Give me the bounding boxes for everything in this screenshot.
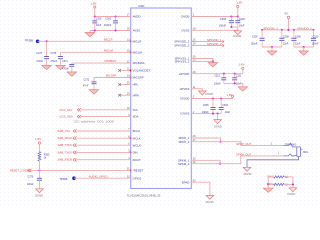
junction RESET/R305 <box>38 169 40 171</box>
svg-text:AVSS: AVSS <box>133 29 141 33</box>
wire DVDD caps bottom <box>230 26 237 28</box>
svg-text:C305: C305 <box>203 104 209 107</box>
pin 25 SPKVDD_1 <box>174 39 196 44</box>
pin 11 VOL/MICDET <box>118 68 150 73</box>
wire MICLP <box>38 37 131 41</box>
svg-text:MICLM: MICLM <box>104 48 114 52</box>
svg-text:470nF: 470nF <box>50 60 57 63</box>
svg-text:MCLK: MCLK <box>133 136 141 140</box>
wire DVSS <box>191 27 238 31</box>
pin 15 MICLM <box>127 50 143 55</box>
svg-text:SPKP_OUT: SPKP_OUT <box>236 142 251 146</box>
svg-text:C306: C306 <box>222 104 228 107</box>
svg-text:C370: C370 <box>28 176 34 179</box>
wire RESET_CODEC <box>10 169 131 173</box>
junction AVSS/C301 <box>94 29 96 31</box>
pin 5 DIN <box>128 150 137 155</box>
svg-text:DGND: DGND <box>233 34 241 38</box>
svg-text:47nF: 47nF <box>83 85 89 88</box>
pin 13 MICLP <box>127 39 142 44</box>
svg-text:10uF: 10uF <box>225 111 231 114</box>
svg-text:AVDD: AVDD <box>133 15 141 19</box>
svg-text:SPKVDD_2: SPKVDD_2 <box>297 26 312 30</box>
svg-text:I2C3_SCL: I2C3_SCL <box>60 108 73 112</box>
svg-text:100nF: 100nF <box>251 42 258 45</box>
junction SPKVSS <box>212 60 214 62</box>
svg-text:1.8V: 1.8V <box>238 63 244 67</box>
svg-text:GPIO1: GPIO1 <box>133 176 142 180</box>
svg-text:100nF: 100nF <box>27 183 34 186</box>
svg-text:SPKVSS_2: SPKVSS_2 <box>175 60 190 64</box>
wire SPKM_2 / SPKM_OUT <box>191 152 283 163</box>
svg-text:10uF: 10uF <box>239 25 245 28</box>
capacitor C375 470nF <box>50 52 63 65</box>
junction SPKP <box>219 141 221 143</box>
svg-text:10uF: 10uF <box>96 24 102 27</box>
svg-text:DGND: DGND <box>206 200 214 204</box>
note I2C address <box>74 119 115 123</box>
ground C372 <box>89 90 99 94</box>
pin 18 DVSS <box>182 28 197 33</box>
wire SAB_TXD0 <box>58 150 131 154</box>
pin 12 MICBIAS <box>127 60 145 65</box>
power 1.8V (IOVDD) <box>227 93 234 99</box>
svg-text:DGND: DGND <box>214 124 222 128</box>
wire SAB_MCLK <box>58 136 131 140</box>
wire SPKVDD rail <box>262 26 313 30</box>
svg-text:DVSS: DVSS <box>182 28 190 32</box>
svg-text:BCLK: BCLK <box>133 129 141 133</box>
svg-text:C307: C307 <box>252 36 258 39</box>
pin 29 HPVDD <box>179 71 196 76</box>
resistor R307 1K <box>274 183 289 186</box>
wire SAB_RXD0 <box>58 158 131 162</box>
wire MIC1RP <box>94 74 131 82</box>
svg-text:22uF: 22uF <box>283 42 289 45</box>
pin 20 HPL <box>118 82 138 87</box>
pin 29 SPKM_2 <box>178 161 196 166</box>
svg-text:*RESET: *RESET <box>133 169 144 173</box>
pin 1 RING <box>278 152 297 156</box>
svg-text:SAB_TXFS: SAB_TXFS <box>58 143 72 147</box>
capacitor C304 100nF <box>219 17 234 28</box>
capacitor C308 22uF <box>279 30 289 47</box>
junction MICLP/C373 <box>46 40 48 42</box>
svg-text:C371: C371 <box>62 60 68 63</box>
test point TP305 <box>25 38 39 43</box>
svg-text:HPR: HPR <box>133 93 139 97</box>
pin 23 SPKVSS_2 <box>175 59 197 64</box>
wire SPKVSS_2 <box>191 60 213 62</box>
svg-text:MIC1RP: MIC1RP <box>133 76 144 80</box>
svg-text:U301: U301 <box>138 4 145 8</box>
svg-text:I2C address: 001 1000: I2C address: 001 1000 <box>74 119 115 123</box>
junction SPKM <box>219 163 221 165</box>
svg-text:100nF: 100nF <box>104 23 112 27</box>
svg-text:MICLP: MICLP <box>104 37 113 41</box>
wire RING stub <box>267 175 273 179</box>
wire AUDIO_GPIO1 <box>74 174 131 178</box>
test point TP306 <box>59 176 75 181</box>
pin 32 GPIO1 <box>127 175 142 180</box>
capacitor C307 100nF <box>251 30 265 47</box>
wire AVSS rail <box>90 30 131 32</box>
ground C371 <box>67 72 77 76</box>
capacitor C371 470nF <box>62 60 74 72</box>
svg-text:C373: C373 <box>36 52 42 55</box>
capacitor C370 100nF <box>27 170 42 188</box>
wire resistors right <box>284 177 294 188</box>
pin 3 DVDD <box>181 14 195 19</box>
svg-text:1.8V: 1.8V <box>35 137 41 141</box>
svg-text:C372: C372 <box>83 78 89 81</box>
svg-text:MIC1RP: MIC1RP <box>106 74 117 78</box>
svg-text:SPKM_OUT: SPKM_OUT <box>236 152 252 156</box>
ground DVDD/DVSS DGND <box>233 31 241 38</box>
capacitor C303 10uF <box>235 17 245 28</box>
svg-text:SPKVDD_2: SPKVDD_2 <box>207 42 222 46</box>
wire SAB_TXFS <box>58 143 131 147</box>
pin 31 *RESET <box>127 168 144 173</box>
resistor R305 1k <box>38 152 50 161</box>
power 1.8V (AVDD) <box>90 2 96 17</box>
junction DVDD/C303 <box>237 15 239 17</box>
svg-text:470nF: 470nF <box>36 60 43 63</box>
svg-text:SAB_MCLK: SAB_MCLK <box>58 136 73 140</box>
svg-text:DOUT: DOUT <box>133 158 141 162</box>
wire I2C3_SCL <box>60 108 131 112</box>
svg-text:SPKVDD_2: SPKVDD_2 <box>174 44 189 48</box>
pin 6 WCLK <box>128 142 141 147</box>
capacitor C311 10uF <box>232 74 242 86</box>
wire SPKVDD_2 stub <box>191 42 224 47</box>
svg-text:100nF: 100nF <box>214 82 221 85</box>
power 5V <box>285 12 290 30</box>
pin 7 BCLK <box>128 128 140 133</box>
wire SAB_TXC <box>58 129 131 133</box>
svg-text:C375: C375 <box>50 52 56 55</box>
junction AVSS/C302 <box>114 29 116 31</box>
pin 28 SPKP_1 <box>178 135 196 140</box>
capacitor C312 100nF <box>214 74 226 86</box>
svg-text:RESET_CODEC: RESET_CODEC <box>10 169 31 173</box>
svg-text:HPVSS: HPVSS <box>180 87 190 91</box>
ground EPAD DGND <box>206 195 214 203</box>
pin 4 DOUT <box>128 157 141 162</box>
wire HPVDD caps bottom <box>224 82 243 84</box>
svg-text:SDA: SDA <box>133 115 139 119</box>
pin 16 AVSS <box>127 28 140 33</box>
svg-text:MICBIAS: MICBIAS <box>105 59 117 63</box>
svg-text:SAB_RXD0: SAB_RXD0 <box>58 158 73 162</box>
svg-text:1.8V: 1.8V <box>236 1 242 5</box>
svg-text:MICLM: MICLM <box>133 50 143 54</box>
wire AVDD rail <box>95 16 131 18</box>
wire DVDD <box>191 16 238 18</box>
power 1.8V (R305 pullup) <box>35 137 41 152</box>
svg-text:WCLK: WCLK <box>133 143 141 147</box>
capacitor C306 10uF <box>219 99 231 115</box>
svg-text:IOVDD: IOVDD <box>180 97 189 101</box>
junction HPVDD/C311 <box>234 73 236 75</box>
wire SPKP_1 <box>191 138 220 142</box>
pin 17 AVDD <box>127 14 141 19</box>
resistor R306 1K <box>274 176 289 179</box>
connector J301 jack body <box>285 142 309 156</box>
ground HPVDD caps <box>238 83 248 91</box>
svg-text:5V: 5V <box>285 12 288 16</box>
wire IOVSS <box>191 113 221 115</box>
pin 27 SPKP_2 <box>178 139 196 144</box>
pin 1 IOVSS <box>181 111 195 116</box>
svg-text:SPKVDD_1: SPKVDD_1 <box>263 26 278 30</box>
ground C375 <box>56 65 66 69</box>
wire IOVDD rail <box>191 98 232 100</box>
pin 33 EPAD <box>182 179 196 184</box>
svg-text:EPAD: EPAD <box>182 180 190 184</box>
pin 24 SPKVDD_2 <box>174 43 196 48</box>
junction AVDD/C302 <box>114 15 116 17</box>
capacitor C305 100nF <box>202 99 216 115</box>
ground C370 DGND <box>35 189 43 198</box>
svg-text:C311: C311 <box>236 74 242 77</box>
wire HPVDD rail <box>191 73 243 75</box>
capacitor C372 47nF <box>83 78 97 89</box>
wire R305 to RESET <box>38 161 40 170</box>
capacitor C301 10uF <box>92 17 102 31</box>
wire MICBIAS <box>72 59 131 63</box>
svg-text:TLV320AIC3100_RHB_32: TLV320AIC3100_RHB_32 <box>127 194 161 198</box>
capacitor C302 100nF <box>104 16 118 30</box>
wire SPKP_2 / SPKP_OUT <box>191 142 283 147</box>
svg-text:DGND: DGND <box>205 92 213 96</box>
ground HPVSS DGND <box>199 91 214 96</box>
pin 2 TIP <box>271 142 297 147</box>
ground C309/C310 <box>299 47 309 55</box>
wire EPAD <box>191 182 210 195</box>
svg-text:470nF: 470nF <box>62 67 69 70</box>
svg-text:1.8V: 1.8V <box>90 2 96 6</box>
svg-text:100nF: 100nF <box>219 24 227 28</box>
svg-text:DGND: DGND <box>287 192 295 196</box>
svg-text:MICLP: MICLP <box>133 39 142 43</box>
svg-text:C308: C308 <box>283 36 289 39</box>
svg-text:DGND: DGND <box>244 172 252 176</box>
pin 30 SPKM_1 <box>178 158 196 163</box>
junction IOVDD/C305 <box>212 97 214 99</box>
wire RING2 stub <box>267 182 275 186</box>
svg-text:HPVDD: HPVDD <box>179 72 189 76</box>
svg-text:VOL/MICDET: VOL/MICDET <box>133 69 151 73</box>
ground SPKVSS <box>208 61 218 67</box>
svg-text:MICBIAS: MICBIAS <box>133 61 145 65</box>
svg-text:C312: C312 <box>214 74 220 77</box>
junction SPKVDD rail <box>261 29 315 31</box>
svg-text:C310: C310 <box>313 36 319 39</box>
power 1.8V (HPVDD) <box>238 63 244 74</box>
ground AVSS <box>85 31 95 37</box>
wire jack sleeve <box>247 157 299 168</box>
svg-text:DGND: DGND <box>35 194 43 198</box>
pin 2 IOVDD <box>180 96 195 101</box>
junction IOVDD/C306 <box>220 97 222 99</box>
wire SPKVDD_1 stub <box>191 38 224 43</box>
pin 9 SDA <box>128 114 138 119</box>
power 1.8V (DVDD) <box>236 1 242 17</box>
ground C307/C308 <box>267 47 277 55</box>
svg-text:C309: C309 <box>295 36 301 39</box>
capacitor C373 470nF <box>36 41 49 65</box>
pin 19 HPR <box>118 92 138 97</box>
ground jack DGND <box>243 167 251 176</box>
wire SPKVSS_1 <box>191 59 213 62</box>
wire SPKM_1 <box>191 160 220 163</box>
pin 14 MIC1RP <box>127 75 144 80</box>
wire MICLM <box>60 48 130 52</box>
svg-text:SPKP_2: SPKP_2 <box>178 140 189 144</box>
svg-text:C302: C302 <box>105 16 112 20</box>
svg-text:AUDIO_GPIO1: AUDIO_GPIO1 <box>89 174 108 178</box>
svg-text:SPKM_2: SPKM_2 <box>178 162 190 166</box>
svg-text:I2C3_SDA: I2C3_SDA <box>60 115 73 119</box>
ground IOVSS DGND <box>214 114 222 129</box>
ground resistors left <box>263 188 273 192</box>
op-amp codec IC U301 body <box>127 4 192 197</box>
svg-text:SAB_TXD0: SAB_TXD0 <box>58 150 73 154</box>
svg-text:DIN: DIN <box>133 151 138 155</box>
pin 8 MCLK <box>128 135 140 140</box>
pin 21 HPVSS <box>180 86 197 91</box>
svg-text:HPL: HPL <box>133 83 139 87</box>
svg-text:C301: C301 <box>96 17 102 20</box>
svg-text:TP305: TP305 <box>25 38 33 42</box>
wire resistors left <box>267 177 269 188</box>
ground resistors right DGND <box>287 188 296 196</box>
wire C307/C308 bottom <box>262 46 282 48</box>
svg-text:C304: C304 <box>220 17 227 21</box>
capacitor C309 22uF <box>291 30 301 47</box>
junction HPVDD/C312 <box>223 73 225 75</box>
svg-text:DVDD: DVDD <box>181 15 189 19</box>
svg-text:J301: J301 <box>303 151 309 154</box>
svg-text:IOVSS: IOVSS <box>181 112 190 116</box>
wire C309/C310 bottom <box>294 46 314 48</box>
capacitor C310 100nF <box>311 30 319 47</box>
junction DVDD/C304 <box>230 15 232 17</box>
wire HPVSS <box>191 89 202 91</box>
wire I2C3_SDA <box>60 115 131 119</box>
pin 26 SPKVSS_1 <box>175 56 197 61</box>
junction AVDD/C301 <box>94 15 96 17</box>
ground C373 <box>42 65 52 69</box>
svg-text:100nF: 100nF <box>312 42 319 45</box>
svg-text:C303: C303 <box>239 18 245 21</box>
svg-text:TP306: TP306 <box>59 177 67 181</box>
pin 10 SCL <box>127 107 139 112</box>
svg-text:22uF: 22uF <box>295 42 301 45</box>
svg-text:SAB_TXC: SAB_TXC <box>58 129 71 133</box>
svg-text:SCL: SCL <box>133 108 139 112</box>
